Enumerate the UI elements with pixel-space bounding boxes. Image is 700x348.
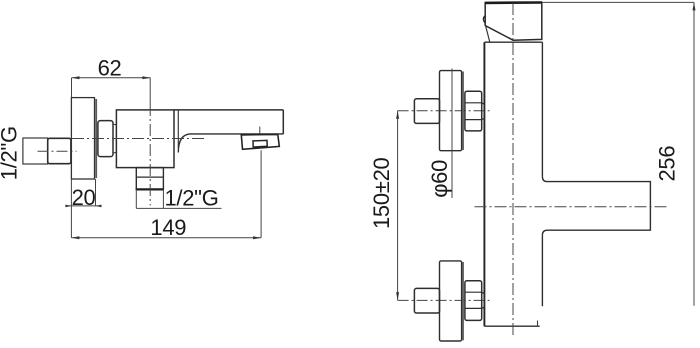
spout underside (191, 133, 283, 135)
svg-text:149: 149 (150, 215, 186, 240)
dimension 62 line (72, 77, 151, 79)
handle end cap bump (483, 16, 485, 24)
diverter outlet step (136, 176, 163, 178)
mixer body (side) (116, 110, 174, 168)
bottom inlet escutcheon shade edge (462, 262, 464, 340)
body vertical centerline (149, 78, 151, 104)
svg-text:φ60: φ60 (427, 160, 452, 198)
connector nut (98, 121, 113, 157)
dimension 20 line (68, 205, 98, 207)
outlet thread label underline (136, 207, 221, 209)
aerator housing (241, 134, 279, 149)
dimension 149 extension right (260, 150, 262, 238)
svg-text:1/2"G: 1/2"G (165, 185, 219, 210)
spout centerline (475, 206, 669, 208)
wall union nut (48, 138, 71, 163)
svg-text:150±20: 150±20 (369, 157, 394, 229)
bottom inlet hex nut facets (465, 291, 482, 293)
body column left edge (483, 42, 485, 326)
dimension 149 line (71, 237, 261, 239)
dimension 20 arrows (65, 205, 71, 208)
lever handle (485, 3, 542, 41)
handle top thick edge (485, 1, 543, 4)
dimension 150±20 line (397, 111, 399, 301)
spout underside fillet (178, 134, 191, 153)
dimension 149 arrows (71, 236, 79, 239)
column bottom step line (537, 321, 539, 327)
body column right edge lower (541, 235, 543, 306)
aerator centerline tick (259, 127, 261, 134)
svg-text:256: 256 (655, 146, 680, 182)
dimension 256 line (693, 2, 695, 305)
bottom inlet hex nut mid band (482, 292, 485, 308)
spout end face (282, 110, 284, 134)
escutcheon shade edge (95, 99, 97, 178)
body column bottom edge (484, 325, 539, 327)
dimension 256 arrow (693, 2, 696, 10)
pipe centerline (38, 150, 77, 152)
svg-text:20: 20 (72, 185, 96, 210)
dimension 62 arrows (72, 76, 80, 79)
top inlet hex nut (465, 91, 482, 131)
svg-text:1/2"G: 1/2"G (0, 126, 22, 180)
diverter outlet (136, 168, 163, 190)
column centerline (512, 3, 514, 337)
dimension 150±20 arrows (396, 111, 399, 119)
wall supply pipe (23, 138, 48, 164)
top inlet escutcheon (440, 71, 462, 151)
main horizontal centerline (72, 138, 205, 140)
bottom inlet hex nut (465, 281, 482, 321)
top inlet nipple (414, 99, 439, 124)
bottom inlet centerline (398, 299, 491, 301)
top inlet hex nut facets (465, 102, 482, 104)
svg-text:62: 62 (98, 55, 122, 80)
dimension 20 extension lines (70, 179, 72, 238)
top inlet centerline (398, 110, 492, 112)
spout (front) outline (542, 177, 650, 236)
connector collar (113, 125, 116, 153)
escutcheon (side) (71, 98, 94, 179)
body column top edge (484, 41, 542, 43)
dimension 256 extension top (542, 1, 694, 3)
phi60 extension line (451, 69, 453, 198)
spout top edge (174, 109, 283, 111)
bottom inlet escutcheon (440, 261, 462, 341)
top inlet escutcheon shade edge (462, 72, 464, 151)
diverter outlet thread end (136, 188, 164, 190)
aerator insert (253, 140, 267, 147)
body column right edge upper (541, 42, 543, 176)
top inlet hex nut mid band (482, 103, 485, 120)
bottom inlet nipple (414, 288, 439, 313)
dimension 62 extension line left (71, 78, 73, 98)
outlet thread label extension lines (135, 189, 137, 208)
body right shade edge (177, 110, 179, 148)
handle lever lower edge (486, 26, 490, 42)
